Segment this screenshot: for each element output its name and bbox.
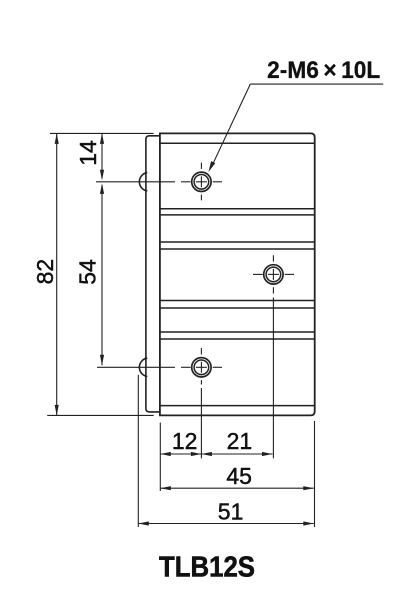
svg-text:82: 82 <box>32 259 58 285</box>
groove line y242 <box>160 241 315 243</box>
groove line y308 <box>160 307 315 309</box>
groove line y339 <box>160 338 315 340</box>
dimension line 45 <box>160 486 313 490</box>
bottom pin bump <box>139 358 147 376</box>
hole middle crosshair <box>253 255 294 293</box>
extension line x314 below body <box>314 421 316 527</box>
dimension line 14 and 54 <box>100 133 104 365</box>
svg-text:TLB12S: TLB12S <box>159 550 255 583</box>
groove line y143 <box>160 142 315 144</box>
hole bottom inner circle <box>194 360 209 375</box>
top pin bump <box>139 173 147 191</box>
groove line y300 <box>160 300 315 302</box>
svg-text:12: 12 <box>172 428 198 454</box>
extension line from bottom hole down <box>200 388 202 458</box>
hole middle outer circle <box>264 265 283 284</box>
hole top inner circle <box>194 175 209 190</box>
groove line y249 <box>160 248 315 250</box>
groove line y209 <box>160 208 315 210</box>
hole top crosshair <box>96 163 222 201</box>
hole top outer circle <box>192 172 211 191</box>
extension line x138 below bump <box>137 375 139 527</box>
extension line from middle hole down <box>272 298 274 459</box>
main body outline <box>160 133 315 415</box>
groove line y406 <box>160 405 315 407</box>
dimension line 12 and 21 <box>160 452 272 456</box>
flange back plate outline <box>146 136 160 412</box>
dimension line 51 <box>138 521 313 525</box>
dimension line 82 <box>55 133 59 415</box>
svg-text:45: 45 <box>226 463 252 489</box>
hole bottom outer circle <box>192 358 211 377</box>
extension line top left <box>50 132 154 134</box>
svg-text:2-M6 × 10L: 2-M6 × 10L <box>267 56 380 83</box>
hole middle inner circle <box>266 267 281 282</box>
hole bottom crosshair <box>97 348 222 384</box>
svg-text:14: 14 <box>75 140 101 166</box>
groove line y332 <box>160 331 315 333</box>
leader line for 2-M6x10L <box>208 84 383 172</box>
extension line bottom left <box>47 414 154 416</box>
svg-text:51: 51 <box>218 498 244 524</box>
extension line x160 below body <box>159 423 161 491</box>
svg-text:54: 54 <box>74 259 100 285</box>
groove line y215 <box>160 214 315 216</box>
svg-text:21: 21 <box>227 428 253 454</box>
